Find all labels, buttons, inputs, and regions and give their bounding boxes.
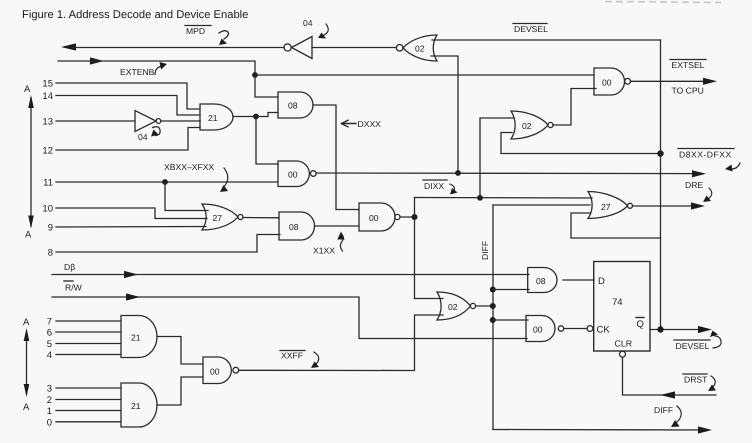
pin label Qbar xyxy=(637,319,644,330)
wire U27b middle input from DIFF xyxy=(493,204,590,206)
junction dot A11 xyxy=(162,179,168,185)
wire U21b output to U00d xyxy=(157,337,203,365)
net D0 label xyxy=(64,262,75,272)
wire D0 xyxy=(52,274,529,276)
svg-text:CLR: CLR xyxy=(615,339,633,349)
bus range arrow A15-A8 xyxy=(28,95,34,229)
net R/W arrow xyxy=(126,293,140,300)
nor gate U02c xyxy=(437,292,476,320)
wire EXTENB to U00c xyxy=(255,74,594,76)
net EXTENB arrow xyxy=(90,57,104,64)
curved annotation arrow at 04a xyxy=(322,24,328,36)
net MPD arrow (to left) xyxy=(61,43,76,50)
wire MPD xyxy=(74,47,284,49)
svg-text:21: 21 xyxy=(131,401,141,411)
svg-text:00: 00 xyxy=(602,78,612,88)
junction dot U21a output xyxy=(253,114,259,120)
svg-text:04: 04 xyxy=(138,132,148,142)
wire A2 xyxy=(56,399,121,401)
wire A6 xyxy=(56,331,121,333)
junction dot DIXX xyxy=(412,214,418,220)
net DEVSEL vertical wire xyxy=(660,40,662,330)
svg-text:00: 00 xyxy=(288,170,298,180)
junction dot on D8XX line xyxy=(455,170,461,176)
curved annotation arrow at MPD xyxy=(219,31,229,39)
svg-text:11: 11 xyxy=(43,178,53,189)
wire U02c output to DIFF vertical xyxy=(476,305,493,307)
net XBXX-XFXX label xyxy=(164,162,214,172)
and gate U08c xyxy=(528,268,557,293)
wire A14 xyxy=(56,96,200,116)
svg-text:DRST: DRST xyxy=(684,375,708,385)
wire A15 xyxy=(56,83,200,109)
net DIXX label xyxy=(424,181,444,191)
svg-text:21: 21 xyxy=(208,113,218,123)
wire A5 xyxy=(56,343,121,345)
and gate U21b (4-input AND) xyxy=(121,316,157,358)
and gate U21a (4-input AND, 7421) xyxy=(200,104,233,130)
scan noise top right xyxy=(606,2,720,3)
wire DIXX to U27b xyxy=(415,197,593,200)
wire U02b output up to U00c xyxy=(553,89,596,126)
svg-text:08: 08 xyxy=(289,222,299,232)
svg-text:10: 10 xyxy=(42,204,53,215)
curved annotation arrow at DEVSEL xyxy=(713,336,721,348)
wire U08b output to U00b xyxy=(315,225,360,227)
wire A11 xyxy=(56,181,278,183)
curved annotation arrow at EXTENB xyxy=(155,66,162,75)
nand gate U00a xyxy=(278,161,316,187)
svg-text:27: 27 xyxy=(213,213,223,223)
junction dot EXTENB xyxy=(252,72,258,78)
wire XXFF to U02c xyxy=(239,315,443,371)
wire U27a output to U08b xyxy=(243,217,279,219)
curved annotation arrow at X1XX xyxy=(340,234,343,251)
net R/W label xyxy=(65,283,83,293)
net D0 arrow xyxy=(124,271,138,278)
svg-text:15: 15 xyxy=(42,79,53,90)
curved annotation arrow at D8XX-DFXX xyxy=(729,163,740,169)
svg-text:EXTSEL: EXTSEL xyxy=(672,60,705,70)
bus range arrow A7-A0 xyxy=(24,328,30,397)
wire A9 xyxy=(56,226,206,229)
svg-text:14: 14 xyxy=(42,91,53,102)
wire U21a output to node xyxy=(233,113,278,117)
svg-text:DIXX: DIXX xyxy=(424,181,444,191)
curved annotation arrow at DIFF xyxy=(676,406,681,423)
svg-text:DIFF: DIFF xyxy=(654,405,673,415)
nand gate U00b xyxy=(359,203,400,231)
curved annotation arrow at DRST xyxy=(711,376,715,388)
nor gate U02a (mirrored, output left) xyxy=(396,35,437,61)
junction dot DIXX-U02b branch xyxy=(477,195,483,201)
wire EXTENB xyxy=(58,61,255,75)
nand gate U00e xyxy=(526,316,564,342)
svg-text:9: 9 xyxy=(48,223,53,234)
svg-text:12: 12 xyxy=(42,146,53,157)
junction dot D8XX input on DEVSEL vertical xyxy=(657,150,663,156)
net X1XX label xyxy=(313,246,335,256)
curved annotation arrow at XBXX-XFXX xyxy=(223,168,228,188)
curved annotation arrow at 04b xyxy=(153,127,161,136)
net EXTENB label xyxy=(120,67,155,77)
net D8XX-DFXX arrow xyxy=(692,170,706,177)
wire U02a top input from DEVSEL vertical xyxy=(432,39,661,41)
svg-text:Dβ: Dβ xyxy=(64,262,75,272)
svg-text:08: 08 xyxy=(288,101,298,111)
wire DIFF bottom run xyxy=(493,429,706,432)
svg-text:7: 7 xyxy=(47,317,52,328)
inverter U04b on A13 xyxy=(135,111,161,143)
wire A13 xyxy=(56,120,135,122)
svg-text:DXXX: DXXX xyxy=(358,119,382,129)
svg-text:EXTENB: EXTENB xyxy=(120,67,155,77)
svg-text:TO CPU: TO CPU xyxy=(672,86,704,96)
net DRE label xyxy=(685,180,703,190)
svg-text:02: 02 xyxy=(415,44,425,54)
svg-text:A: A xyxy=(23,402,30,413)
wire U02a bottom input stub xyxy=(431,56,458,173)
wire U08a output down to U00b xyxy=(313,105,359,210)
wire CLR to DRST xyxy=(623,357,717,395)
svg-text:00: 00 xyxy=(210,367,220,377)
wire A8 xyxy=(56,235,280,253)
svg-text:A: A xyxy=(24,84,31,95)
and gate U08a xyxy=(278,92,313,118)
flip-flop U74 body xyxy=(594,262,650,352)
svg-text:A: A xyxy=(23,317,30,328)
net DIFF label xyxy=(654,405,673,415)
nor gate U27b (3-input NOR) xyxy=(588,192,633,219)
net DRE arrow xyxy=(691,202,705,209)
svg-text:5: 5 xyxy=(47,339,52,350)
net TO CPU label xyxy=(672,86,704,96)
wire inverter 04a input from U02a xyxy=(312,47,397,49)
net XXFF label xyxy=(281,351,303,361)
net DIFF vertical label xyxy=(480,241,490,260)
svg-text:Q: Q xyxy=(637,319,644,330)
net DIFF arrow xyxy=(698,426,712,433)
net EXTSEL label xyxy=(672,60,705,70)
wire U08c output to D pin xyxy=(563,279,594,281)
svg-text:00: 00 xyxy=(369,213,379,223)
net DXXX annotation arrow xyxy=(342,120,357,127)
inverter U04a (pointing left) xyxy=(284,18,313,59)
svg-text:6: 6 xyxy=(47,328,52,339)
wire A0 xyxy=(56,421,121,423)
net D8XX-DFXX label xyxy=(679,150,732,160)
net DIFF vertical wire xyxy=(492,205,494,430)
svg-text:CK: CK xyxy=(597,325,611,336)
wire U27b output (DRE) xyxy=(633,205,700,207)
nand gate U00c (EXTSEL) xyxy=(594,68,630,95)
svg-text:02: 02 xyxy=(522,121,532,131)
net EXTSEL arrow to CPU xyxy=(703,78,717,85)
net DEVSEL (bottom) label xyxy=(676,341,710,351)
CK inversion bubble xyxy=(587,326,593,332)
wire A1 xyxy=(56,410,121,412)
junction dot DIFF to U00e xyxy=(490,317,496,323)
svg-text:02: 02 xyxy=(448,302,458,312)
wire A12 xyxy=(56,128,200,151)
wire U00b output to DIXX node xyxy=(400,216,415,218)
wire U00e output to CK pin xyxy=(564,328,587,330)
svg-text:00: 00 xyxy=(533,325,543,335)
net DEVSEL arrow xyxy=(698,326,712,333)
svg-text:MPD: MPD xyxy=(186,26,205,36)
wire DIXX branch up to U02b xyxy=(480,118,513,198)
svg-text:08: 08 xyxy=(536,276,546,286)
svg-text:1: 1 xyxy=(47,406,52,417)
wire U00a output (D8XX-DFXX) xyxy=(316,172,701,175)
wire U21c output to U00d xyxy=(157,377,203,405)
svg-text:D: D xyxy=(598,276,605,287)
junction dot DIFF to U08c xyxy=(490,287,496,293)
junction dot DEVSEL xyxy=(657,326,663,332)
svg-text:0: 0 xyxy=(47,417,52,428)
and gate U08b xyxy=(279,212,315,240)
svg-text:3: 3 xyxy=(47,384,52,395)
svg-text:DIFF: DIFF xyxy=(480,241,490,260)
svg-text:27: 27 xyxy=(601,202,611,212)
net DRST arrow (pointing left) xyxy=(660,391,675,398)
wire A11 branch to U27a xyxy=(165,182,208,211)
nor gate U02b xyxy=(511,111,553,139)
wire inverter 04b output to U21a xyxy=(161,120,200,122)
wire A10 xyxy=(56,208,207,219)
curved annotation arrow at DIXX xyxy=(450,184,454,192)
wire U21a output down to U00a xyxy=(256,117,278,165)
svg-text:74: 74 xyxy=(612,297,623,308)
CLR inversion bubble xyxy=(620,351,626,357)
svg-text:8: 8 xyxy=(48,248,53,259)
wire DIFF to U08c xyxy=(493,289,529,291)
svg-text:4: 4 xyxy=(47,350,52,361)
net DXXX label xyxy=(358,119,382,129)
wire A7 xyxy=(56,320,121,322)
svg-text:2: 2 xyxy=(47,395,52,406)
svg-text:XBXX–XFXX: XBXX–XFXX xyxy=(164,162,214,172)
wire DIFF to U00e xyxy=(493,319,528,321)
junction dot DIFF source xyxy=(490,303,496,309)
curved annotation arrow at DRE xyxy=(708,188,712,199)
svg-text:XXFF: XXFF xyxy=(281,351,303,361)
wire R/W xyxy=(52,297,527,339)
wire Qbar output (DEVSEL) xyxy=(650,329,706,331)
net DRST label xyxy=(684,375,708,385)
svg-text:DEVSEL: DEVSEL xyxy=(676,341,710,351)
wire DIXX down into U02c xyxy=(415,298,444,300)
nor gate U27a (3-input NOR, 7427) xyxy=(202,204,243,230)
svg-text:DEVSEL: DEVSEL xyxy=(514,24,548,34)
svg-text:DRE: DRE xyxy=(685,180,703,190)
svg-text:A: A xyxy=(25,230,32,241)
wire U02b bottom input from DEVSEL vertical xyxy=(501,133,661,154)
svg-text:R/W: R/W xyxy=(65,283,83,293)
svg-text:21: 21 xyxy=(131,333,141,343)
curved annotation arrow at XXFF xyxy=(314,352,319,365)
svg-text:X1XX: X1XX xyxy=(313,246,335,256)
and gate U21c (4-input AND) xyxy=(121,383,157,427)
svg-text:13: 13 xyxy=(42,117,53,128)
net MPD label xyxy=(186,26,205,36)
wire EXTENB branch to U08a xyxy=(255,75,278,97)
svg-text:04: 04 xyxy=(303,18,313,28)
nand gate U00d (XXFF) xyxy=(203,357,239,384)
net DEVSEL (top) label xyxy=(514,24,548,34)
wire A4 xyxy=(56,354,121,356)
svg-text:Figure 1. Address Decode and D: Figure 1. Address Decode and Device Enab… xyxy=(22,9,248,21)
wire U00c output (EXTSEL) xyxy=(631,80,712,82)
svg-text:D8XX-DFXX: D8XX-DFXX xyxy=(679,150,732,160)
wire U27b bottom input from DEVSEL vertical xyxy=(571,213,661,238)
wire A3 xyxy=(56,387,121,389)
wire DIXX vertical xyxy=(414,198,416,299)
